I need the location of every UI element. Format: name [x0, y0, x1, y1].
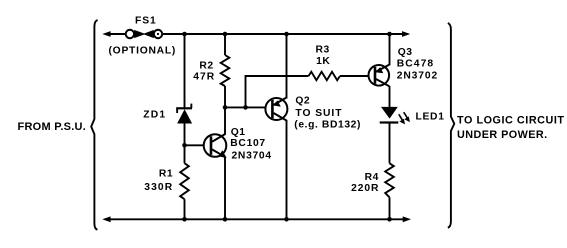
- svg-text:(OPTIONAL): (OPTIONAL): [109, 45, 177, 56]
- brace right (TO LOGIC CIRCUIT): [448, 23, 455, 228]
- svg-text:R4: R4: [365, 172, 379, 183]
- label 1K: [316, 56, 330, 67]
- svg-text:220R: 220R: [351, 183, 379, 194]
- LED LED1: [380, 107, 399, 124]
- wire branch C (R3 feed, corner): [246, 76, 309, 107]
- junction bottom rail x=389.5: [387, 217, 392, 222]
- resistor R4: [385, 163, 394, 197]
- Q3 emitter arrowhead (PNP): [375, 67, 383, 73]
- junction bottom rail x=184.5: [182, 217, 187, 222]
- svg-text:2N3702: 2N3702: [397, 71, 438, 82]
- label UNDER POWER.: [457, 129, 548, 141]
- svg-text:LED1: LED1: [416, 112, 445, 123]
- svg-text:330R: 330R: [144, 182, 173, 193]
- junction top rail x=286.5: [284, 32, 289, 37]
- label Q3: [398, 47, 413, 58]
- label ZD1: [143, 109, 166, 120]
- svg-text:Q2: Q2: [295, 96, 310, 107]
- svg-text:1K: 1K: [316, 56, 330, 67]
- label R4: [365, 172, 379, 183]
- arrow bottom-right (to logic circuit): [403, 216, 411, 222]
- svg-text:FS1: FS1: [135, 15, 157, 26]
- svg-text:Q1: Q1: [231, 127, 246, 138]
- svg-text:R2: R2: [199, 61, 213, 72]
- svg-text:47R: 47R: [193, 71, 215, 82]
- wire top rail: [106, 33, 405, 35]
- transistor Q3: [369, 65, 390, 86]
- label BC107: [230, 138, 266, 149]
- label TO LOGIC CIRCUIT: [457, 115, 565, 127]
- label 330R: [144, 182, 173, 193]
- wire branch A vertical (zener/R1 leg): [184, 34, 186, 219]
- Q1 emitter arrowhead: [219, 150, 227, 158]
- label R1: [159, 169, 173, 180]
- arrow top-right (to logic circuit): [402, 31, 410, 37]
- label 2N3702: [397, 71, 438, 82]
- junction zener/base node: [182, 143, 187, 148]
- label 220R: [351, 183, 379, 194]
- label Q2: [295, 96, 310, 107]
- transistor Q2: [265, 98, 287, 120]
- LED light arrows: [399, 112, 408, 121]
- label TO SUIT: [295, 108, 342, 119]
- arrow bottom-left (to P.S.U.): [102, 216, 110, 222]
- resistor R2: [221, 55, 230, 86]
- svg-text:Q3: Q3: [398, 47, 413, 58]
- svg-text:2N3704: 2N3704: [232, 151, 272, 162]
- svg-text:FROM P.S.U.: FROM P.S.U.: [18, 121, 87, 133]
- wire branch E vertical (Q3/LED/R4 leg): [389, 34, 391, 219]
- svg-text:R3: R3: [316, 45, 330, 56]
- label Q1: [231, 127, 246, 138]
- label 47R: [193, 71, 215, 82]
- svg-text:R1: R1: [159, 169, 173, 180]
- wire branch B vertical (R2 / Q1 leg): [224, 34, 226, 219]
- junction bottom rail x=225: [223, 217, 228, 222]
- junction bottom rail x=286.5: [284, 217, 289, 222]
- label FROM P.S.U.: [18, 121, 87, 133]
- wire R3 to Q3 base: [340, 75, 369, 77]
- junction base wire x=245.5: [243, 105, 248, 110]
- wire Q2 base horizontal: [225, 106, 266, 108]
- resistor R3: [309, 72, 341, 80]
- label 2N3704: [232, 151, 272, 162]
- zener diode ZD1: [176, 104, 192, 124]
- svg-text:BC478: BC478: [397, 59, 435, 70]
- svg-text:(e.g. BD132): (e.g. BD132): [294, 120, 361, 131]
- label FS1: [135, 15, 157, 26]
- junction R2 bottom / Q2 base node: [223, 105, 228, 110]
- label (OPTIONAL): [109, 45, 177, 56]
- junction top rail x=184.5: [182, 32, 187, 37]
- transistor Q1: [204, 134, 227, 157]
- wire Q1 base: [185, 144, 205, 146]
- brace left (FROM P.S.U.): [91, 20, 97, 230]
- svg-text:TO SUIT: TO SUIT: [295, 108, 342, 119]
- svg-text:TO LOGIC CIRCUIT: TO LOGIC CIRCUIT: [457, 115, 565, 127]
- Q2 emitter arrowhead (PNP): [273, 100, 281, 106]
- fuse FS1: [126, 30, 163, 38]
- label R2: [199, 61, 213, 72]
- label LED1: [416, 112, 445, 123]
- resistor R1: [180, 163, 189, 199]
- svg-text:ZD1: ZD1: [143, 109, 166, 120]
- label (e.g. BD132): [294, 120, 361, 131]
- svg-text:BC107: BC107: [230, 138, 266, 149]
- junction top rail x=225: [223, 32, 228, 37]
- label BC478: [397, 59, 435, 70]
- junction top rail x=389.5: [387, 32, 392, 37]
- wire branch D vertical (Q2 leg): [286, 34, 288, 219]
- label R3: [316, 45, 330, 56]
- wire bottom rail: [106, 218, 406, 220]
- arrow top-left (to P.S.U.): [102, 31, 110, 37]
- svg-text:UNDER POWER.: UNDER POWER.: [457, 129, 548, 141]
